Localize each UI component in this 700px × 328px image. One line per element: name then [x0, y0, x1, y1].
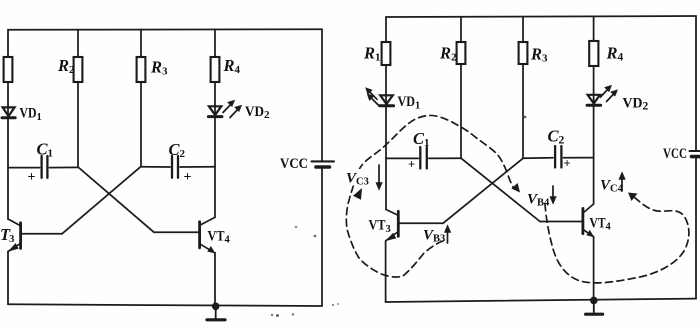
wire: VT3 base lead (right circuit) [399, 222, 443, 224]
wire: bottom rail (right circuit) [386, 299, 696, 302]
wire: bottom rail (left circuit) [8, 304, 322, 306]
LED VD1 (right circuit) [366, 88, 394, 106]
svg-text:+: + [184, 170, 192, 185]
wire: R2 branch vertical (right circuit) [460, 17, 462, 158]
wire: left branch vertical (R-a / VD1 / VT3 collector) [7, 30, 9, 219]
resistor R1 (right circuit) [382, 42, 391, 65]
capacitor C1 (left circuit) [8, 156, 78, 178]
svg-text:+: + [408, 158, 415, 172]
svg-text:R1: R1 [363, 44, 381, 64]
svg-text:R2: R2 [57, 56, 75, 76]
resistor R2 (left circuit) [74, 57, 83, 82]
svg-text:C2: C2 [169, 140, 186, 160]
svg-text:VB4: VB4 [527, 192, 550, 209]
svg-text:VD1: VD1 [398, 94, 421, 112]
svg-text:+: + [564, 157, 571, 171]
wire: R4 / VD2 / VT4 collector vertical [214, 29, 216, 217]
wire: VT3 emitter to bottom rail (right circuit) [385, 241, 387, 302]
ground symbol (left circuit) [207, 306, 225, 320]
label VB4 with down arrow [550, 186, 556, 204]
wire: R4 / VD2 / VT4 collector vertical (right circuit) [593, 16, 595, 204]
svg-text:R3: R3 [530, 45, 548, 65]
ground symbol (right circuit) [586, 300, 603, 314]
capacitor C1 (right circuit) [386, 147, 461, 169]
resistor R4 (right circuit) [589, 41, 598, 66]
resistor R3 (left circuit) [137, 57, 146, 82]
arrowhead of dashed path at VC4 (pointing up-left) [628, 193, 638, 202]
transistor T3 (left circuit) [8, 219, 21, 252]
dashed feedback path: VB3 loop around VT3 up through C1 to VB4 [346, 115, 513, 277]
transistor VT4 (right circuit) [583, 204, 594, 237]
transistor VT3 (right circuit) [386, 210, 398, 241]
svg-text:VT4: VT4 [208, 229, 231, 246]
svg-text:VCC: VCC [663, 146, 687, 162]
svg-text:VD2: VD2 [245, 104, 270, 121]
svg-text:VD1: VD1 [20, 106, 42, 124]
svg-text:VB3: VB3 [423, 228, 445, 245]
svg-text:R4: R4 [223, 56, 241, 76]
svg-text:VD2: VD2 [623, 96, 649, 113]
wire: cross-coupling diagonal from R2 bottom to VT4 base [78, 167, 154, 232]
svg-text:VCC: VCC [280, 156, 308, 172]
wire: diagonal from R3 bottom to VT3 base (right circuit) [443, 158, 523, 223]
wire: R2 branch vertical [77, 30, 79, 168]
wire: top supply rail (left circuit) [8, 28, 322, 31]
svg-text:C1: C1 [37, 140, 54, 160]
wire: VT4 emitter to bottom rail (right circuit) [593, 237, 595, 301]
transistor VT4 (left circuit) [200, 217, 215, 253]
capacitor C2 (right circuit) [523, 146, 594, 168]
scan specks (noise from original) [295, 226, 298, 229]
battery VCC (left circuit) [312, 29, 335, 306]
diode VD1 (left circuit) [2, 107, 15, 117]
LED VD2 (right circuit) [587, 85, 617, 105]
svg-text:C2: C2 [548, 127, 565, 147]
resistor R2 (right circuit) [457, 42, 466, 64]
wire: VT4 base lead [154, 231, 199, 233]
resistor R3 (right circuit) [519, 42, 528, 64]
arrowhead on dashed path near VC3 (pointing up-right) [353, 188, 362, 200]
battery VCC (right circuit, at right edge) [690, 16, 700, 299]
svg-text:C1: C1 [413, 129, 430, 149]
svg-text:VT3: VT3 [369, 218, 391, 236]
resistor R4 (left circuit) [211, 57, 220, 82]
svg-text:R4: R4 [606, 44, 624, 64]
wire: T3 base lead [22, 233, 62, 235]
wire: VT3 emitter to bottom rail [7, 252, 9, 305]
wire: top supply rail (right circuit) [386, 16, 696, 17]
junction: VT4 emitter / ground node (right circuit) [590, 297, 598, 305]
svg-text:VC4: VC4 [600, 178, 624, 195]
dashed feedback path: VB4 down around VT4 up to VC4 [545, 197, 689, 283]
arrowhead of dashed path at VB4 (pointing down-right) [511, 183, 520, 193]
wire: VT4 emitter to bottom rail [214, 253, 216, 306]
label VB3 with up arrow [444, 225, 450, 243]
wire: diagonal from R2 bottom to VT4 base (right circuit) [461, 158, 540, 221]
svg-text:T3: T3 [0, 225, 14, 245]
svg-text:+: + [28, 170, 36, 185]
wire: R3 branch vertical [140, 29, 142, 166]
label VC4 with up arrow [619, 172, 625, 191]
svg-text:R2: R2 [439, 44, 457, 64]
wire: R1 / VD1 / VT3 collector vertical (left border of right circuit) [385, 17, 387, 210]
resistor Ra (unlabeled, left branch) [4, 57, 13, 82]
svg-text:VT4: VT4 [590, 216, 612, 233]
wire: cross-coupling diagonal from R3 bottom to T3 base [62, 166, 141, 233]
LED VD2 (left circuit) [208, 100, 241, 117]
label VC3 with down arrow [376, 165, 382, 190]
wire: R3 branch vertical (right circuit) [522, 17, 524, 159]
capacitor C2 (left circuit) [141, 156, 215, 178]
svg-text:R3: R3 [150, 58, 168, 78]
wire: VT4 base lead (right circuit) [540, 221, 582, 223]
junction: VT4 emitter / ground node (left circuit) [212, 303, 220, 311]
